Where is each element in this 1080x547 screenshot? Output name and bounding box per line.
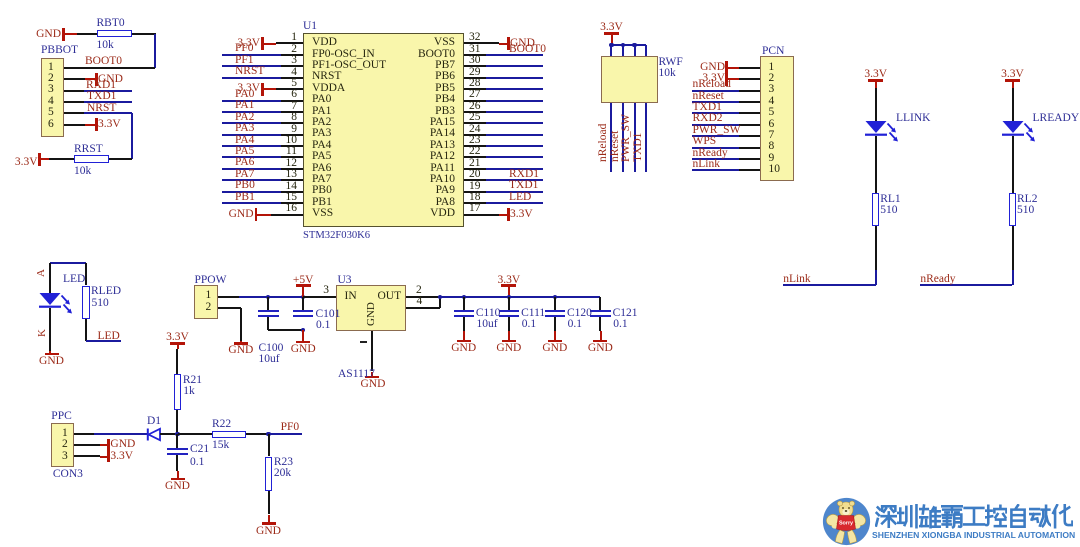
wire U3 GND pin down	[371, 331, 373, 372]
pin 13 U1 PA7	[286, 169, 298, 181]
pin 26 U1 PB3	[469, 101, 481, 113]
label C110 10uf	[476, 308, 501, 320]
net TXD1 wire pin4	[64, 101, 85, 103]
net nLink	[783, 284, 876, 286]
pin 5 PCN TXD1	[769, 107, 775, 119]
pin 5 PBBOT	[48, 107, 54, 119]
pin 11 U1 PA5	[286, 146, 297, 158]
pin 1 PCN GND	[769, 62, 775, 74]
capacitor C121	[599, 297, 601, 311]
pin 20 U1 PA10	[469, 169, 481, 181]
net BOOT0	[85, 56, 122, 68]
label C100 10uf	[259, 343, 284, 355]
pin 2 PBBOT	[48, 73, 54, 85]
LED LREADY	[1000, 119, 1040, 147]
wire PPOW pin2 to GND	[218, 307, 241, 309]
resistor R22	[212, 431, 247, 439]
net NRST wire pin5	[64, 112, 85, 114]
junction dot C100 top	[266, 295, 270, 299]
wire R23 down	[268, 491, 270, 514]
wire 3.3V to LED LLINK	[875, 88, 877, 121]
LED LLINK	[863, 119, 903, 147]
label C111 0.1	[521, 308, 545, 320]
junction dot PF0 node left	[175, 432, 179, 436]
pin 3 U1 PF1-OSC_OUT	[291, 55, 297, 67]
diode D1	[147, 416, 161, 428]
resistor RBT0	[97, 30, 133, 38]
pin 2 U1 FP0-OSC_IN	[291, 44, 297, 56]
label C21 0.1	[190, 444, 209, 456]
pin 8 U1 PA2	[291, 112, 297, 124]
wire RWF top rail	[612, 44, 647, 46]
wire C100 bottom to C101 bottom	[268, 329, 303, 331]
pin 1 U1 VDD	[291, 32, 297, 44]
pin 30 U1 PB7	[469, 55, 481, 67]
pin 12 U1 PA6	[286, 158, 298, 170]
power 3.3V (RRST left)	[15, 157, 38, 169]
logo english text	[872, 531, 1075, 540]
pin 9 PCN nReady	[769, 153, 775, 165]
power GND (C121)	[599, 317, 601, 331]
power GND (C111)	[508, 317, 510, 331]
pin 3 PPC	[62, 451, 68, 463]
power GND (PPC pin2)	[74, 444, 100, 446]
junction dot U3 out	[438, 295, 442, 299]
wire RLED down and right	[85, 319, 87, 341]
wire RLED top	[50, 262, 86, 264]
wire LED to RL1	[875, 136, 877, 193]
pin 25 U1 PA15	[469, 112, 481, 124]
wire 3.3V output rail	[440, 296, 600, 298]
power GND (opto LED)	[49, 351, 51, 353]
label LREADY	[1033, 113, 1080, 125]
wire R21 down to node	[176, 410, 178, 434]
op IC U1 designator	[303, 21, 317, 33]
label LED (top)	[63, 274, 85, 286]
pin 2 PCN 3.3V	[769, 73, 775, 85]
pin 6 U1 PA0	[291, 89, 297, 101]
wire D1 to node	[160, 433, 177, 435]
power +5V	[293, 275, 314, 287]
pin 3 U3 number	[323, 285, 329, 297]
pin 2 U3 wire OUT	[416, 285, 422, 297]
pin 17 U1 VDD	[469, 203, 481, 215]
logo chinese text	[875, 504, 897, 529]
wire nReload (RWF)	[610, 103, 612, 172]
connector PBBOT	[41, 45, 78, 57]
wire RRST to pin5	[109, 158, 132, 160]
pin 24 U1 PA14	[469, 124, 481, 136]
wire TXD1 (RWF)	[645, 103, 647, 172]
value AS1117	[338, 369, 375, 381]
power 3.3V (regulator out)	[498, 275, 521, 287]
connector PCN	[762, 46, 784, 58]
power GND (C100/C101)	[302, 330, 304, 341]
label K (cathode)	[37, 329, 48, 337]
net PWR_SW rotated	[621, 114, 633, 162]
pin 6 PBBOT	[48, 119, 54, 131]
pin 3 PCN nReload	[769, 84, 775, 96]
resistor R23	[265, 457, 273, 492]
pin 10 U1 PA4	[286, 135, 298, 147]
pin 19 U1 PA9	[469, 181, 481, 193]
power 3.3V (LREADY)	[1001, 69, 1024, 81]
pin 28 U1 PB5	[469, 78, 481, 90]
power GND (C21)	[176, 455, 178, 471]
resistor network RWF	[601, 56, 658, 103]
net TXD1 rotated	[633, 132, 645, 161]
pin 1 PPOW	[206, 290, 212, 302]
pin 4 PCN nReset	[769, 96, 775, 108]
power 3.3V (PBBOT pin 6)	[64, 124, 86, 126]
capacitor C100	[267, 297, 269, 311]
net nReload rotated	[598, 123, 610, 161]
wire GND to RBT0	[77, 33, 97, 35]
label OUT	[378, 291, 402, 303]
resistor RL1	[872, 193, 880, 226]
net nReady	[920, 284, 1013, 286]
pin 8 PCN WPS	[769, 141, 775, 153]
wire nReset (RWF)	[622, 103, 624, 172]
pin 6 PCN RXD2	[769, 119, 775, 131]
power GND (PPOW)	[240, 341, 242, 343]
junction dots output rail	[462, 295, 466, 299]
capacitor C21	[167, 448, 187, 450]
logo circle with bear	[822, 497, 871, 546]
LED D (opto)	[37, 291, 77, 319]
junction dot PF0	[266, 432, 270, 436]
wire +5V rail segment	[268, 296, 303, 298]
resistor R21	[174, 374, 182, 410]
junction dots RWF	[609, 43, 613, 47]
pin 15 U1 PB1	[286, 192, 298, 204]
pin 10 PCN nLink	[769, 164, 781, 176]
capacitor C111	[508, 297, 510, 311]
pin 32 U1 VSS	[469, 32, 481, 44]
pin 1 PBBOT	[48, 62, 54, 74]
wire 3.3V to RRST	[49, 158, 74, 160]
capacitor C101	[302, 297, 304, 311]
pin 1 PPC	[62, 428, 68, 440]
junction dot C101 bottom	[301, 328, 305, 332]
net PF0	[269, 433, 303, 435]
svg-text:Sorry: Sorry	[839, 521, 853, 527]
label C101 0.1	[316, 309, 341, 321]
pin 9 U1 PA3	[291, 124, 297, 136]
label C121 0.1	[613, 308, 638, 320]
pin 16 U1 VSS	[286, 203, 298, 215]
wire LED cathode down	[49, 308, 51, 351]
wire 3.3V to LED LREADY	[1012, 88, 1014, 121]
net nReset rotated	[610, 130, 622, 161]
label GND rotated (U3)	[366, 302, 377, 326]
label C120 0.1	[567, 308, 592, 320]
net LED (bottom)	[98, 331, 120, 343]
power GND (PBBOT pin 2)	[64, 78, 86, 80]
resistor RRST	[74, 155, 109, 163]
wire LED to RL2	[1012, 136, 1014, 193]
value CON3	[53, 469, 83, 481]
wire node to R22	[178, 433, 212, 435]
pin 2 PPOW	[206, 302, 212, 314]
pin 31 U1 BOOT0	[469, 44, 481, 56]
wire RBT0 to BOOT0 node	[132, 33, 156, 35]
wire RL1 down	[875, 226, 877, 270]
power 3.3V (R21)	[166, 332, 189, 344]
pin 4 PBBOT	[48, 96, 54, 108]
pin 5 U1 VDDA	[291, 78, 297, 90]
wire 3.3V to R21	[176, 349, 178, 374]
regulator U3	[338, 275, 352, 287]
wire R22 to PF0 node	[246, 433, 268, 435]
pin 2 PPC	[62, 439, 68, 451]
power GND (R23)	[268, 515, 270, 524]
wire PPOW pin1 to +5V rail	[218, 296, 240, 298]
label IN	[345, 291, 357, 303]
wire node to C21	[176, 434, 178, 447]
wire PPC pin1 to D1	[74, 433, 93, 435]
IC U1 body STM32F030K6	[303, 33, 464, 228]
resistor RLED	[82, 286, 90, 320]
connector PPOW	[195, 275, 227, 287]
wire RL2 down	[1012, 226, 1014, 270]
pin 3 PBBOT	[48, 84, 54, 96]
label LLINK	[896, 113, 931, 125]
capacitor C110	[463, 297, 465, 311]
pin 23 U1 PA13	[469, 135, 481, 147]
pin 4 U1 NRST	[291, 67, 297, 79]
value STM32F030K6	[303, 231, 370, 242]
power 3.3V (RWF)	[600, 22, 623, 34]
label minus (U3 gnd pin)	[360, 341, 367, 343]
pin 4 U3 wire	[417, 296, 423, 308]
power GND (C120)	[554, 317, 556, 331]
power 3.3V (LLINK)	[864, 69, 887, 81]
power GND (RBT0 left)	[36, 29, 61, 41]
pin 29 U1 PB6	[469, 67, 481, 79]
pin 21 U1 PA11	[469, 158, 481, 170]
connector PPC	[51, 411, 71, 423]
capacitor C120	[554, 297, 556, 311]
wire node to R23	[268, 434, 270, 456]
pin 22 U1 PA12	[469, 146, 481, 158]
pin 27 U1 PB4	[469, 89, 481, 101]
junction dot C101 top	[301, 295, 305, 299]
wire pin5 down to RRST	[131, 113, 133, 159]
pin 7 U1 PA1	[291, 101, 297, 113]
pin 14 U1 PB0	[286, 181, 298, 193]
pin 18 U1 PA8	[469, 192, 481, 204]
pin 7 PCN PWR_SW	[769, 130, 775, 142]
resistor RL2	[1009, 193, 1017, 226]
power 3.3V (PPC pin3)	[74, 455, 100, 457]
wire PWR_SW (RWF)	[634, 103, 636, 172]
power GND (C110)	[463, 317, 465, 331]
net RXD1 wire pin3	[64, 90, 85, 92]
power GND (U3)	[371, 372, 373, 377]
wire to U3 pin 3	[303, 296, 336, 298]
label A (anode)	[36, 269, 47, 277]
